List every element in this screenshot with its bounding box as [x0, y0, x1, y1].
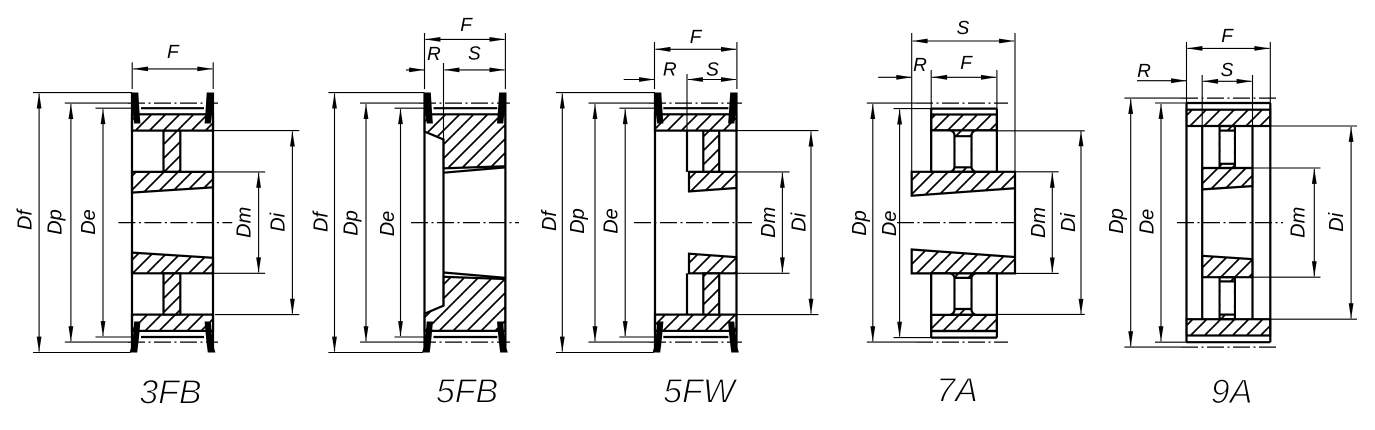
- figure 7A pulley section: [897, 103, 1016, 342]
- pitch line bottom (dash-dot): [916, 341, 1008, 343]
- rim band bottom (hatched): [655, 315, 737, 331]
- svg-text:De: De: [78, 209, 100, 235]
- pitch line bottom (dash-dot): [649, 341, 742, 343]
- dimension R: [878, 76, 911, 78]
- bush boundary line: [443, 63, 445, 140]
- svg-text:S: S: [468, 43, 481, 64]
- svg-text:De: De: [1137, 209, 1159, 235]
- svg-text:5FB: 5FB: [436, 372, 498, 410]
- dimension Df: [33, 92, 132, 94]
- upper half body (hatched): [425, 114, 506, 168]
- svg-text:9A: 9A: [1211, 373, 1253, 411]
- recess bottom-left (white, filleted): [931, 273, 954, 314]
- svg-text:Dm: Dm: [1028, 207, 1050, 238]
- flange top right: [497, 93, 507, 124]
- figure 9A pulley section: [1177, 75, 1283, 347]
- svg-text:Dm: Dm: [234, 207, 256, 238]
- figure 3FB pulley section: [118, 93, 232, 353]
- dimension De: [395, 107, 425, 109]
- web bottom (hatched): [1220, 277, 1235, 319]
- dimension S: [688, 79, 736, 81]
- pitch line top (dash-dot): [1181, 97, 1276, 99]
- svg-text:Df: Df: [311, 210, 333, 232]
- body left edge: [423, 93, 425, 353]
- svg-text:Di: Di: [1058, 213, 1080, 232]
- dimension F: [654, 42, 656, 89]
- web zone bottom (hatched): [931, 273, 997, 314]
- dimension Di: [213, 130, 299, 132]
- rim band top (hatched): [1187, 110, 1271, 126]
- hub bottom (hatched, taper bore): [689, 254, 737, 274]
- dimension Dm: [1015, 171, 1059, 173]
- svg-text:R: R: [427, 44, 441, 65]
- hub bottom (hatched, taper bore): [912, 250, 1015, 274]
- body right edge: [735, 93, 737, 353]
- dimension S: [1203, 80, 1251, 82]
- dimension F: [131, 62, 133, 89]
- tooth tip lines: [663, 107, 728, 109]
- body left edge: [654, 93, 656, 353]
- dimension Di: [997, 130, 1085, 132]
- hub right face through bore: [1014, 188, 1016, 257]
- svg-text:F: F: [960, 53, 973, 74]
- svg-text:Dp: Dp: [849, 210, 871, 236]
- flange bottom right: [205, 322, 216, 353]
- svg-text:De: De: [601, 208, 623, 234]
- hub right boundary: [1252, 75, 1254, 126]
- figure 5FW pulley section: [634, 74, 752, 353]
- hub left boundary: [1201, 75, 1203, 126]
- dimension Dp: [867, 102, 916, 104]
- web top (hatched): [703, 131, 719, 172]
- dimension R: [406, 69, 424, 71]
- tooth tip lines: [931, 107, 997, 109]
- web bottom (hatched): [164, 273, 181, 314]
- recess top-left (white, filleted): [931, 130, 954, 171]
- rim band bottom (hatched): [132, 315, 213, 331]
- body left edge: [131, 93, 133, 353]
- body right edge: [504, 93, 506, 353]
- bush boundary line: [686, 74, 688, 131]
- hub top (hatched, taper bore): [912, 172, 1015, 196]
- dimension Dp: [360, 102, 419, 104]
- figure 5FB pulley section: [411, 63, 519, 353]
- flange bottom left: [422, 322, 433, 353]
- svg-text:Di: Di: [268, 212, 290, 231]
- svg-text:R: R: [1137, 61, 1151, 82]
- svg-text:F: F: [167, 42, 180, 63]
- svg-text:De: De: [377, 211, 399, 237]
- dimension Di: [737, 130, 819, 132]
- flange bottom right: [728, 322, 739, 353]
- tooth tip lines: [141, 107, 204, 109]
- lower half body (hatched): [425, 277, 506, 331]
- hub bottom (hatched, taper bore): [1202, 256, 1252, 277]
- rim band top (hatched): [655, 114, 737, 130]
- web top (hatched): [164, 131, 181, 172]
- body left edge: [1185, 103, 1187, 342]
- svg-text:Dm: Dm: [1288, 207, 1310, 238]
- svg-text:F: F: [460, 15, 473, 36]
- centerline (dash-dot): [118, 222, 232, 224]
- pitch line top (dash-dot): [128, 102, 218, 104]
- web zone top (hatched): [931, 130, 997, 171]
- svg-text:3FB: 3FB: [139, 373, 201, 411]
- rim left face: [930, 109, 932, 172]
- bore lower second line: [444, 273, 506, 278]
- dimension Dp: [65, 102, 130, 104]
- dimension S: [445, 69, 505, 71]
- body right edge: [212, 93, 214, 353]
- centerline (dash-dot): [1177, 222, 1283, 224]
- svg-text:Df: Df: [539, 209, 561, 231]
- dimension S: [911, 33, 913, 172]
- pitch line bottom (dash-dot): [128, 341, 218, 343]
- dimension Df: [328, 92, 424, 94]
- rim band top (hatched): [931, 115, 997, 131]
- svg-text:S: S: [957, 18, 970, 39]
- rim right face: [996, 109, 998, 172]
- tooth tip lines: [434, 107, 498, 109]
- recess top-right (white, filleted): [972, 130, 997, 171]
- dimension F: [930, 70, 932, 109]
- flange top left: [423, 93, 433, 124]
- hub top (hatched, taper bore): [132, 172, 213, 193]
- rim band bottom (hatched): [1187, 319, 1271, 335]
- rim band top (hatched): [132, 114, 213, 130]
- dimension Dm: [213, 171, 265, 173]
- body right edge: [1269, 103, 1271, 342]
- svg-text:R: R: [663, 59, 677, 80]
- dimension Dp: [589, 102, 650, 104]
- pitch line bottom (dash-dot): [419, 341, 510, 343]
- web window bottom (white): [956, 278, 971, 309]
- svg-text:F: F: [690, 27, 703, 48]
- centerline (dash-dot): [411, 222, 519, 224]
- svg-text:Df: Df: [15, 208, 37, 230]
- dimension De: [96, 107, 133, 109]
- flange top right: [728, 93, 738, 124]
- svg-text:S: S: [1221, 60, 1234, 81]
- svg-text:Dm: Dm: [758, 207, 780, 238]
- dimension Dp: [1124, 97, 1181, 99]
- flange bottom left: [130, 322, 141, 353]
- pitch line top (dash-dot): [649, 102, 742, 104]
- pitch line top (dash-dot): [916, 102, 1008, 104]
- dimension Di: [1270, 125, 1357, 127]
- hub top (hatched, taper bore): [1202, 168, 1252, 189]
- svg-text:Dp: Dp: [1106, 208, 1128, 234]
- centerline (dash-dot): [897, 222, 1016, 224]
- svg-text:Dp: Dp: [567, 208, 589, 234]
- pitch line bottom (dash-dot): [1181, 346, 1276, 348]
- dimension De: [1155, 102, 1187, 104]
- svg-text:Dp: Dp: [45, 209, 67, 235]
- dimension F: [1186, 42, 1188, 103]
- dimension De: [894, 108, 932, 110]
- pitch line top (dash-dot): [419, 102, 510, 104]
- dimension F: [424, 33, 426, 89]
- flange bottom right: [497, 322, 508, 353]
- svg-text:5FW: 5FW: [663, 372, 738, 410]
- flange top right: [205, 93, 215, 124]
- bore upper second line: [444, 167, 506, 172]
- svg-text:R: R: [913, 55, 927, 76]
- rim left face bottom: [930, 273, 932, 337]
- rim band bottom (hatched): [931, 315, 997, 331]
- web bottom (hatched): [703, 273, 719, 314]
- dimension R: [1137, 80, 1186, 82]
- dimension Dm: [1253, 167, 1321, 169]
- hub bottom (hatched, taper bore): [132, 253, 213, 274]
- svg-text:S: S: [706, 59, 719, 80]
- svg-text:Di: Di: [789, 212, 811, 231]
- web window top (white): [1221, 131, 1234, 164]
- dimension R: [624, 79, 654, 81]
- dimension Dm: [737, 171, 790, 173]
- web window bottom (white): [1221, 281, 1234, 314]
- rim right face bottom: [996, 273, 998, 337]
- svg-text:De: De: [879, 211, 901, 237]
- tooth tip lines: [1187, 102, 1271, 104]
- dimension De: [619, 107, 655, 109]
- recess bottom-right (white, filleted): [972, 273, 997, 314]
- dimension Df: [556, 92, 655, 94]
- svg-text:F: F: [1221, 26, 1234, 47]
- svg-text:7A: 7A: [936, 371, 978, 409]
- centerline (dash-dot): [634, 222, 752, 224]
- flange top left: [131, 93, 141, 124]
- svg-text:Di: Di: [1326, 212, 1348, 231]
- web top (hatched): [1220, 126, 1235, 168]
- flange top left: [654, 93, 664, 124]
- svg-text:Dp: Dp: [341, 210, 363, 236]
- web window top (white): [956, 136, 971, 167]
- flange bottom left: [653, 322, 664, 353]
- hub top (hatched, taper bore): [689, 172, 737, 192]
